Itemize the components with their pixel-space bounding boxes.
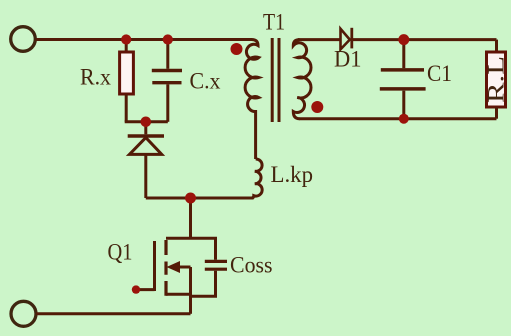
polarity dot secondary <box>311 101 323 113</box>
wire C1 top lead <box>402 40 405 69</box>
wire primary to L.kp <box>254 110 257 159</box>
wire top rail <box>36 38 252 41</box>
mosfet Q1 channel dashes <box>164 240 167 296</box>
capacitor Coss <box>205 261 227 269</box>
wire C.x bottom lead <box>166 84 169 121</box>
wire D1 to top right corner <box>352 38 497 41</box>
diode D1 triangle <box>341 29 350 50</box>
wire diode top lead <box>144 122 147 135</box>
svg-text:Coss: Coss <box>230 253 273 278</box>
wire diode bottom lead <box>144 154 147 198</box>
wire drain vertical <box>189 198 192 238</box>
diode Dx triangle (pointing up) <box>129 138 161 155</box>
mosfet Q1 body arrow <box>167 261 181 273</box>
mosfet Q1 body arrow stub <box>178 266 191 269</box>
transformer T1 secondary winding <box>293 40 311 119</box>
wire gate lead <box>136 288 155 291</box>
wire bottom rail <box>36 312 191 315</box>
diode D1 cathode bar <box>350 28 353 49</box>
wire R.x bottom lead <box>125 94 128 122</box>
wire secondary bottom rail <box>299 117 497 120</box>
inductor L.kp <box>251 159 262 198</box>
transformer T1 core <box>272 38 279 122</box>
svg-text:C.x: C.x <box>190 69 221 94</box>
svg-text:Q1: Q1 <box>108 240 133 265</box>
input terminal top <box>11 27 36 52</box>
input terminal bottom <box>11 301 36 326</box>
wire R.x top lead <box>125 40 128 53</box>
capacitor C1 <box>380 70 426 89</box>
resistor R.L <box>487 52 506 107</box>
svg-text:T1: T1 <box>263 10 285 35</box>
wire Coss top horizontal <box>191 238 216 260</box>
wire R.L top lead <box>495 40 498 52</box>
svg-text:L.kp: L.kp <box>271 162 314 187</box>
wire C1 bottom lead <box>402 91 405 119</box>
wire R.L bottom lead <box>495 107 498 119</box>
gate terminal dot <box>132 285 140 293</box>
mosfet Q1 drain stub <box>166 237 191 240</box>
wire secondary top to D1 <box>298 38 341 41</box>
wire Coss bottom <box>191 271 216 297</box>
svg-text:R.x: R.x <box>80 65 111 90</box>
svg-text:C1: C1 <box>427 61 452 86</box>
transformer T1 primary winding <box>245 40 259 112</box>
diode Dx cathode bar <box>128 134 164 137</box>
mosfet Q1 source-body vertical <box>189 267 192 314</box>
wire mid horizontal to L.kp <box>146 197 254 200</box>
svg-text:R.L: R.L <box>484 56 509 103</box>
mosfet Q1 source stub <box>166 293 191 296</box>
junction dot snubber node <box>141 117 152 128</box>
polarity dot primary <box>231 43 243 55</box>
wire snubber bottom horizontal <box>125 120 168 123</box>
junction dot C1 bottom <box>399 114 409 124</box>
capacitor C.x <box>152 71 182 83</box>
mosfet Q1 gate bar <box>153 241 156 291</box>
resistor R.x <box>120 52 134 94</box>
junction dot R.x top <box>121 34 131 44</box>
junction dot mid node <box>185 193 196 204</box>
svg-text:D1: D1 <box>334 47 362 72</box>
junction dot D1 output <box>398 34 409 45</box>
wire C.x top lead <box>166 40 169 69</box>
junction dot C.x top <box>163 34 173 44</box>
